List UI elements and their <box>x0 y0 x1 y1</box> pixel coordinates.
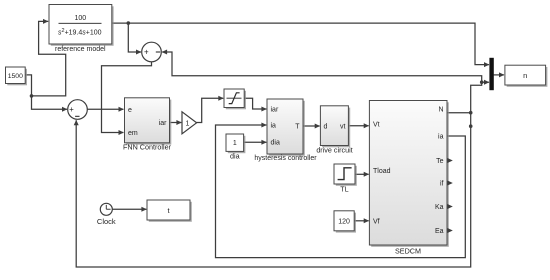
svg-text:em: em <box>128 130 138 137</box>
svg-text:hysteresis controller: hysteresis controller <box>254 155 317 162</box>
svg-text:if: if <box>440 181 444 188</box>
svg-text:T: T <box>295 123 300 130</box>
svg-text:s2+19.4s+100: s2+19.4s+100 <box>58 28 102 37</box>
svg-text:Ka: Ka <box>435 204 444 211</box>
svg-text:+: + <box>144 48 149 57</box>
svg-text:dia: dia <box>230 151 240 160</box>
svg-text:1: 1 <box>233 140 237 147</box>
svg-text:iar: iar <box>271 107 279 114</box>
svg-text:n: n <box>523 71 527 80</box>
svg-text:N: N <box>438 107 443 114</box>
svg-text:drive circuit: drive circuit <box>316 146 352 155</box>
svg-text:d: d <box>324 124 328 131</box>
svg-text:+: + <box>69 105 74 114</box>
svg-text:FNN Controller: FNN Controller <box>123 143 172 152</box>
svg-text:ia: ia <box>271 123 277 130</box>
svg-text:100: 100 <box>74 15 86 22</box>
svg-text:TL: TL <box>340 185 348 194</box>
svg-text:reference model: reference model <box>55 46 106 53</box>
svg-text:Clock: Clock <box>97 217 116 226</box>
svg-text:Vf: Vf <box>373 218 380 225</box>
svg-text:120: 120 <box>338 219 350 226</box>
svg-text:Te: Te <box>436 158 444 165</box>
svg-text:Ea: Ea <box>435 228 444 235</box>
svg-text:Vt: Vt <box>373 122 380 129</box>
svg-text:SEDCM: SEDCM <box>395 247 421 256</box>
svg-text:vt: vt <box>340 123 346 130</box>
svg-text:ia: ia <box>438 133 444 140</box>
svg-text:Tload: Tload <box>373 168 391 175</box>
svg-text:1500: 1500 <box>8 73 23 80</box>
svg-text:iar: iar <box>159 120 167 127</box>
svg-text:e: e <box>128 107 132 114</box>
svg-text:1: 1 <box>186 120 190 127</box>
svg-text:dia: dia <box>271 140 280 147</box>
